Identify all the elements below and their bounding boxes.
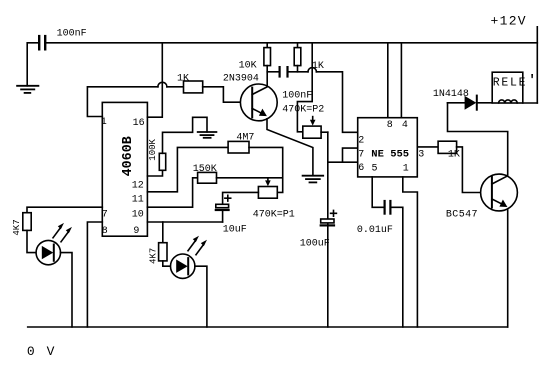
- wire pin9 branch to 4K7 LED2: [162, 222, 164, 243]
- wire pin8 to 0V rail: [87, 222, 102, 327]
- svg-text:': ': [528, 73, 536, 88]
- relay coil: [499, 100, 518, 103]
- resistor R 4K7 (LED2): [159, 243, 167, 261]
- wire rail dropper to P2: [297, 43, 312, 132]
- wire cap to 555 pin2 with hop: [288, 71, 309, 73]
- capacitor C 100uF electrolytic: [321, 219, 334, 223]
- wire 150K right across P1 wiper: [217, 177, 283, 179]
- resistor R 4K7 (LED1): [23, 213, 31, 231]
- wire 555 pin4 to rail: [400, 43, 402, 118]
- wire Q1 emitter diagonal to ground: [267, 119, 313, 176]
- resistor R 1K (base of Q1): [184, 81, 203, 93]
- potentiometer P2 470K: [303, 126, 321, 138]
- svg-text:1: 1: [403, 164, 409, 175]
- wire pin11 to 4M7: [147, 147, 228, 191]
- wire 555 pin1 to 0V rail: [403, 177, 418, 327]
- resistor R 1K (base of Q2): [438, 141, 457, 153]
- svg-text:4: 4: [402, 120, 408, 131]
- wire 555 pin7 stub: [343, 148, 358, 162]
- wire relay bottom to +12V vertical: [523, 102, 538, 104]
- wire 555 pin6: [328, 161, 358, 163]
- svg-text:8: 8: [387, 120, 393, 131]
- svg-text:100nF: 100nF: [282, 90, 312, 101]
- resistor R 150K: [198, 172, 217, 183]
- svg-text:10uF: 10uF: [223, 225, 247, 236]
- wire top +12V rail: [47, 42, 538, 44]
- LED D1: [36, 240, 60, 264]
- wire LED1 to 0V rail: [61, 253, 73, 327]
- svg-text:150K: 150K: [193, 164, 217, 175]
- node 0V label: [27, 344, 55, 359]
- svg-text:0: 0: [27, 344, 35, 359]
- wire 4M7 right down to P1 right: [249, 147, 283, 192]
- node +12V label: [491, 14, 527, 29]
- wire hop over pin16 dropper: [158, 82, 167, 87]
- transistor Q2 BC547: [481, 174, 518, 211]
- svg-text:2: 2: [358, 136, 364, 147]
- wire +12V vertical: [536, 27, 538, 103]
- wire R 1K to Q2 base: [457, 147, 492, 193]
- svg-text:BC547: BC547: [446, 209, 478, 220]
- resistor R 10K vertical: [266, 43, 268, 48]
- svg-text:RELE: RELE: [493, 77, 527, 90]
- wire 100K top to ground bridge: [163, 117, 208, 153]
- ground G2 near IC: [198, 131, 217, 133]
- svg-text:100K: 100K: [148, 139, 158, 161]
- wire 0V bottom rail: [28, 326, 508, 328]
- wire 100K bottom to pin12: [147, 170, 162, 176]
- svg-text:7: 7: [358, 149, 364, 160]
- wire pin9: [147, 221, 222, 223]
- resistor R 4M7: [228, 141, 249, 153]
- wire P2 right to pins 6-7 and 100uF: [321, 131, 328, 133]
- wire 555 pin8 to rail: [387, 43, 389, 118]
- svg-text:11: 11: [132, 195, 144, 206]
- wire 4K7 to LED1: [27, 230, 36, 252]
- svg-text:470K=P2: 470K=P2: [282, 104, 324, 115]
- svg-text:4060B: 4060B: [121, 136, 136, 176]
- svg-text:NE 555: NE 555: [371, 149, 409, 161]
- wire LED2 to 0V rail: [195, 266, 207, 327]
- wire 10uF bottom to pin9 wire: [222, 210, 224, 222]
- svg-text:7: 7: [102, 209, 108, 220]
- svg-text:10: 10: [132, 209, 144, 220]
- ground G3 mid: [303, 175, 324, 177]
- svg-text:6: 6: [358, 163, 364, 174]
- transistor Q1 2N3904: [240, 84, 277, 121]
- svg-text:4K7: 4K7: [12, 219, 22, 235]
- wire Q2 emitter to 0V rail: [507, 210, 509, 328]
- wire pin7 to 4K7 LED1: [27, 207, 102, 213]
- svg-text:1: 1: [101, 117, 107, 128]
- resistor R 100K vertical: [159, 153, 165, 170]
- wire 555 pin3 to R 1K: [417, 146, 438, 148]
- capacitor C 0.01uF: [384, 201, 386, 214]
- svg-text:4M7: 4M7: [236, 132, 254, 143]
- svg-text:470K=P1: 470K=P1: [253, 210, 295, 221]
- svg-text:3: 3: [418, 149, 424, 160]
- wire 4K7 to LED2: [163, 261, 171, 266]
- wire pin16 to +12V rail: [147, 43, 162, 117]
- capacitor C 100nF top-left: [38, 36, 40, 49]
- wire diode row: [448, 102, 465, 104]
- relay K1 RELE': [492, 72, 523, 103]
- resistor R 1K vertical top: [297, 43, 299, 48]
- LED D2 arrows: [188, 240, 196, 251]
- IC U2 NE555 body: [358, 118, 418, 177]
- svg-text:+12V: +12V: [491, 14, 527, 29]
- wire P1 left to 10uF top: [223, 192, 259, 204]
- svg-text:0.01uF: 0.01uF: [357, 225, 393, 236]
- svg-text:1K: 1K: [448, 149, 460, 160]
- capacitor C 10uF electrolytic: [216, 204, 229, 207]
- svg-text:1N4148: 1N4148: [433, 89, 469, 100]
- wire pin10 to 150K: [147, 178, 197, 207]
- svg-text:2N3904: 2N3904: [223, 73, 259, 84]
- wire R 1K to Q1 base: [203, 87, 253, 102]
- wire 10K bottom to collector and cap: [266, 66, 268, 85]
- svg-text:10K: 10K: [239, 60, 257, 71]
- svg-text:8: 8: [102, 226, 108, 237]
- wire 555 pin5 to 0.01uF: [372, 177, 383, 207]
- ground G1 top-left: [17, 85, 38, 87]
- svg-text:1K: 1K: [177, 74, 189, 85]
- wire pin1 loop to R 1K: [87, 87, 157, 117]
- svg-text:5: 5: [372, 164, 378, 175]
- svg-text:9: 9: [133, 226, 139, 237]
- wire diode anode to Q2 collector: [448, 103, 508, 175]
- LED D2: [171, 254, 195, 278]
- LED D1 arrows: [53, 227, 61, 238]
- capacitor C 100nF (coupling): [279, 67, 281, 76]
- diode D 1N4148: [465, 96, 477, 110]
- svg-text:100uF: 100uF: [300, 238, 330, 249]
- wire cap to ground: [27, 43, 38, 86]
- IC U1 4060B body: [102, 102, 147, 236]
- svg-text:V: V: [47, 344, 55, 359]
- svg-text:100nF: 100nF: [57, 28, 87, 39]
- svg-text:16: 16: [133, 118, 145, 129]
- potentiometer P1 470K: [258, 187, 277, 199]
- svg-text:4K7: 4K7: [149, 248, 159, 264]
- svg-text:12: 12: [132, 180, 144, 191]
- wire 0.01uF to 0V rail: [391, 207, 402, 327]
- svg-text:1K: 1K: [312, 61, 324, 72]
